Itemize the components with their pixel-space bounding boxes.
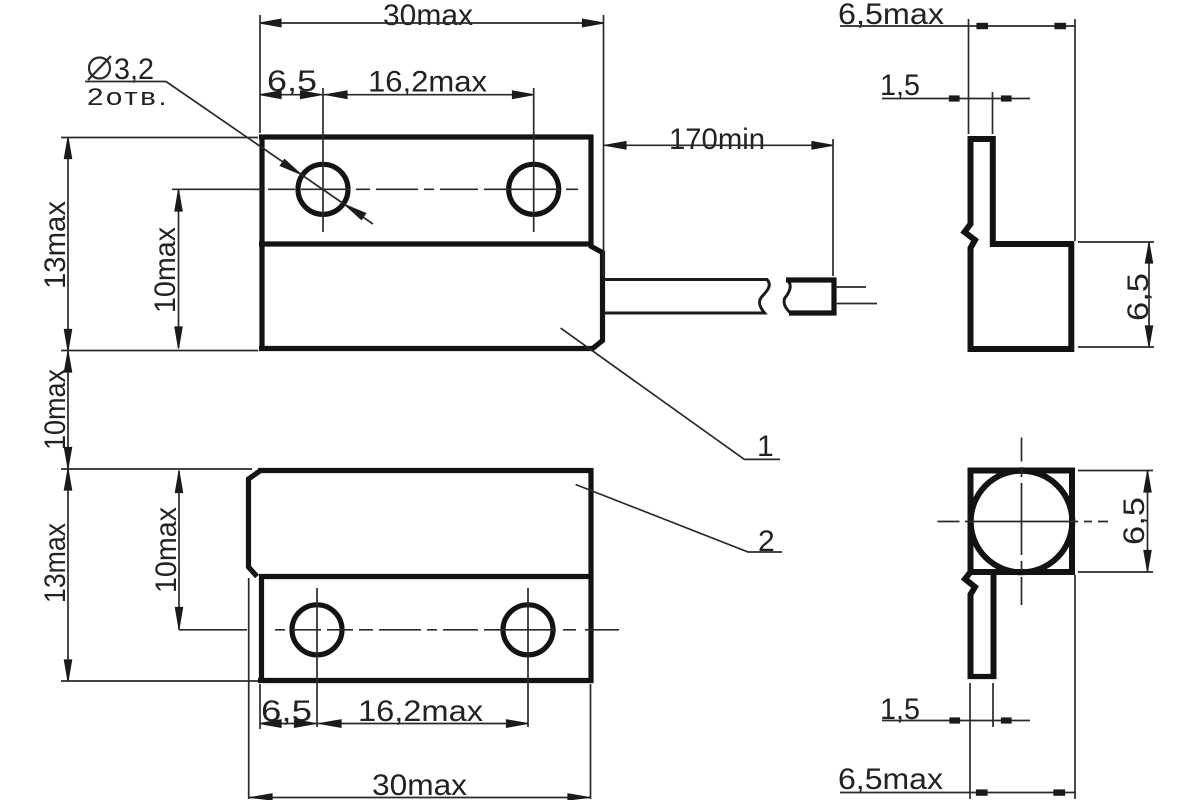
svg-text:30max: 30max	[383, 0, 473, 32]
svg-text:6,5: 6,5	[1122, 273, 1155, 321]
svg-text:10max: 10max	[149, 227, 182, 313]
svg-text:16,2max: 16,2max	[368, 66, 487, 99]
svg-text:2: 2	[758, 525, 775, 558]
svg-text:170min: 170min	[669, 123, 765, 156]
svg-text:6,5max: 6,5max	[838, 763, 943, 796]
svg-text:1: 1	[757, 430, 774, 463]
svg-text:13max: 13max	[39, 523, 72, 603]
svg-text:10max: 10max	[39, 369, 72, 450]
svg-text:13max: 13max	[39, 201, 72, 289]
svg-text:10max: 10max	[150, 507, 183, 593]
svg-text:2отв.: 2отв.	[87, 84, 169, 111]
svg-text:6,5: 6,5	[1118, 497, 1151, 545]
svg-text:30max: 30max	[372, 769, 467, 800]
svg-text:1,5: 1,5	[880, 69, 920, 102]
